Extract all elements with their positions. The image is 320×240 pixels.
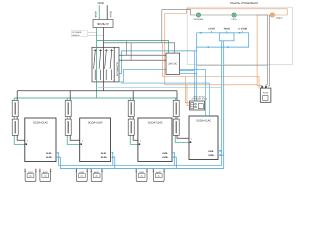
ALM alarm bus upper <box>58 47 221 165</box>
limit switch P-OT axis 3 <box>135 169 147 182</box>
limit switch M-OT axis 3 <box>153 169 165 182</box>
svg-text:СЕТЬ: СЕТЬ <box>231 18 237 21</box>
relay K1 <box>260 88 271 102</box>
contactor pole 1 <box>94 49 97 80</box>
filter FL1 <box>93 20 113 28</box>
24V DC power supply G1 <box>166 53 180 74</box>
blue arrows on circuit <box>199 32 202 34</box>
orange lower run to relay <box>165 84 257 86</box>
contactor pole 2 <box>99 49 102 80</box>
tap drops to 24V feed <box>127 41 131 61</box>
svg-text:УПРАВЛЕН. БЛОК: УПРАВЛЕН. БЛОК <box>192 98 208 101</box>
label network cable with leaders <box>71 31 103 37</box>
contactor pole 3 <box>105 49 108 80</box>
svg-text:ПИТАНИЕ: ПИТАНИЕ <box>194 18 204 21</box>
wire filter through contactor to dark bus <box>102 28 104 91</box>
svg-text:СЕТЕВОЙ: СЕТЕВОЙ <box>72 31 82 34</box>
svg-text:ФИЛЬТР: ФИЛЬТР <box>97 22 109 26</box>
blue pair from contact box down <box>222 41 224 47</box>
servo driver A4 SGDA-01A5 <box>189 116 218 160</box>
blue button stubs <box>212 31 243 33</box>
button E-STOP SB3 <box>238 28 247 31</box>
button START SB2 <box>224 28 231 31</box>
wire filter through contactor to green bus <box>96 28 98 99</box>
svg-text:ALM-: ALM- <box>101 152 107 155</box>
indicator lamp power HL1 <box>194 13 204 21</box>
svg-text:ALM-: ALM- <box>208 150 214 153</box>
svg-text:SGDA-01A5: SGDA-01A5 <box>196 119 211 122</box>
ALM blue hooks driver 1 <box>57 152 59 158</box>
svg-text:НОЛЬ: НОЛЬ <box>110 10 113 17</box>
contactor KM1 with coil strip <box>92 47 119 82</box>
ALM blue hooks driver 2 <box>111 152 113 158</box>
ALM stubs driver 4 <box>220 151 223 155</box>
ALM alarm bus lower <box>60 47 223 168</box>
servo driver A2 SGDA-01A5 <box>80 118 111 162</box>
alarm lamp HL3 <box>270 13 282 20</box>
svg-text:«В»: «В» <box>140 175 143 178</box>
limit switch M-OT axis 2 <box>90 169 102 182</box>
servo driver A1 SGDA-01A5 <box>25 118 56 162</box>
svg-text:ПАНЕЛЬ УПРАВЛЕНИЯ: ПАНЕЛЬ УПРАВЛЕНИЯ <box>230 2 258 5</box>
svg-text:КАТУШКА ПВ: КАТУШКА ПВ <box>116 62 119 76</box>
svg-text:SGDA-01A5: SGDA-01A5 <box>88 121 103 124</box>
fuse blocks driver 2 <box>65 100 71 135</box>
fuse blocks driver 4 <box>173 100 179 135</box>
svg-text:«В»: «В» <box>29 175 32 178</box>
wire gray second drop to relay <box>268 15 270 86</box>
blue wire coil to driver 4 top <box>121 83 209 116</box>
svg-text:24V DC: 24V DC <box>168 62 177 65</box>
limit switch P-OT axis 1 <box>24 169 36 182</box>
drop wires driver 3 <box>130 98 138 144</box>
fuse blocks driver 3 <box>128 100 134 135</box>
wires contactor to 24V supply <box>119 55 166 60</box>
svg-text:авария: авария <box>276 17 283 20</box>
svg-text:SGDA-01A5: SGDA-01A5 <box>148 121 163 124</box>
green AC tap to 24V supply <box>97 41 169 54</box>
svg-text:ALM+: ALM+ <box>46 156 53 159</box>
indicator lamp network HL2 <box>231 13 237 21</box>
fuse blocks driver 1 <box>12 100 18 135</box>
svg-text:ПУСК: ПУСК <box>224 28 231 31</box>
ALM blue hooks driver 3 <box>173 152 175 158</box>
svg-text:ALM+: ALM+ <box>208 154 215 157</box>
svg-text:РЕЛЕ: РЕЛЕ <box>263 92 269 95</box>
dark AC bus <box>17 90 177 92</box>
servo driver A3 SGDA-01A5 <box>138 118 172 162</box>
svg-text:«В»: «В» <box>95 175 98 178</box>
gray AC tap to 24V supply <box>103 43 174 53</box>
svg-text:ALM+: ALM+ <box>101 156 108 159</box>
wire gray feeder to indicators <box>162 10 197 43</box>
wire orange lamp to relay <box>257 15 270 88</box>
blue start button contact box <box>219 33 234 41</box>
wire neutral 220V down to filter (dark) <box>106 5 108 19</box>
wire orange panel feeder to alarm lamp <box>165 9 287 85</box>
svg-text:ALM-: ALM- <box>162 152 168 155</box>
wire phase 220V down to filter (green) <box>98 5 100 19</box>
PLC connector X5 <box>190 101 205 110</box>
blue wire panel to contactor coil <box>119 47 197 73</box>
control panel outline <box>187 7 292 64</box>
drop wires driver 4 <box>175 98 189 142</box>
wire gray indicators to relay <box>201 15 268 88</box>
svg-text:КАБЕЛЬ: КАБЕЛЬ <box>72 34 80 37</box>
ALM blue hooks driver 4 <box>219 150 221 156</box>
limit switch P-OT axis 2 <box>76 169 88 182</box>
ALM stubs driver 3 <box>174 154 176 168</box>
blue button circuit top rail <box>197 33 249 47</box>
blue wire coil to driver 4 top a <box>119 69 206 116</box>
orange stubs to PLC connector <box>185 77 189 106</box>
svg-text:«В»: «В» <box>80 175 83 178</box>
svg-text:СТОП: СТОП <box>208 28 215 31</box>
svg-text:ФАЗА: ФАЗА <box>95 11 98 18</box>
drop wires driver 2 <box>67 98 80 144</box>
ALM stubs driver 2 <box>113 154 115 168</box>
svg-text:220В: 220В <box>97 2 103 5</box>
svg-text:«В»: «В» <box>44 175 47 178</box>
svg-text:ALM+: ALM+ <box>162 156 169 159</box>
svg-text:«В»: «В» <box>157 175 160 178</box>
button STOP SB1 <box>208 28 215 31</box>
contactor pole 4 <box>110 49 113 80</box>
green AC bus <box>14 97 177 99</box>
cyan signal wire <box>98 86 222 88</box>
drop wires driver 1 <box>14 98 25 144</box>
svg-text:ALM-: ALM- <box>46 152 52 155</box>
orange upper run to relay <box>163 43 260 88</box>
relay top pins <box>261 86 263 88</box>
gray run 24V to relay <box>197 65 268 67</box>
PLC label <box>192 95 208 100</box>
limit switch M-OT axis 1 <box>39 169 51 182</box>
svg-text:С-СТОП: С-СТОП <box>238 28 247 31</box>
svg-text:SGDA-01A5: SGDA-01A5 <box>33 121 48 124</box>
blue wires panel to 24V supply and PLC <box>180 51 197 101</box>
